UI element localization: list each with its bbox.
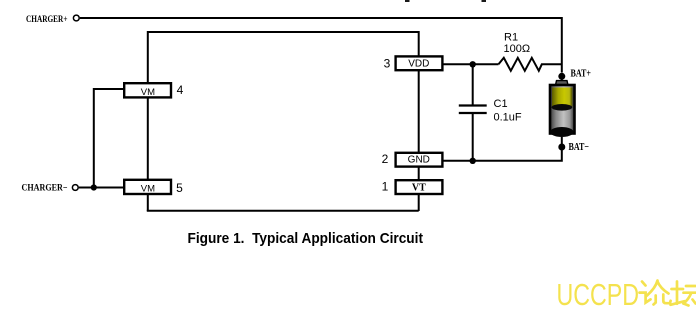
wire top rail down to VDD	[418, 31, 420, 56]
BAT+ node dot	[558, 73, 565, 80]
battery cell graphic	[550, 73, 575, 144]
svg-text:0.1uF: 0.1uF	[494, 111, 522, 123]
box GND pin2	[396, 153, 443, 167]
wire GND to VT	[418, 167, 420, 180]
svg-text:5: 5	[176, 181, 183, 195]
svg-text:GND: GND	[408, 155, 430, 166]
BAT- node dot	[558, 144, 565, 151]
wire top rail of loop	[148, 31, 419, 33]
svg-text:C1: C1	[494, 98, 508, 110]
svg-text:BAT+: BAT+	[571, 69, 592, 80]
wire junction up to VM pin4	[94, 89, 123, 188]
svg-text:VT: VT	[412, 182, 426, 193]
svg-text:3: 3	[384, 57, 391, 71]
junction dot GND/C1 node	[470, 158, 476, 164]
wire VDD to GND	[418, 71, 420, 152]
box VM pin4	[124, 83, 171, 98]
svg-text:CHARGER+: CHARGER+	[26, 15, 68, 25]
wire bottom rail up to VT	[418, 194, 420, 211]
wire VDD to resistor	[443, 63, 499, 65]
box VDD pin3	[396, 56, 443, 70]
wire CHARGER- to VM pin5	[79, 187, 123, 189]
watermark CJK tan	[671, 282, 696, 306]
box VT pin1	[396, 180, 443, 194]
junction dot VDD/C1 node	[470, 61, 476, 67]
watermark CJK lun	[640, 281, 671, 305]
svg-text:CHARGER−: CHARGER−	[22, 184, 68, 194]
svg-text:BAT−: BAT−	[569, 142, 590, 153]
junction dot on CHARGER- wire	[91, 184, 97, 190]
box VM pin5	[124, 180, 171, 195]
capacitor C1	[459, 66, 487, 161]
svg-text:VDD: VDD	[408, 59, 429, 70]
svg-text:Figure 1. Typical Application: Figure 1. Typical Application Circuit	[188, 230, 424, 247]
svg-text:VM: VM	[141, 87, 155, 98]
cropped text remnant right	[482, 0, 487, 2]
wire VM5 down to bottom rail	[147, 195, 149, 212]
cropped text remnant left	[405, 0, 410, 2]
wire GND to BAT-	[443, 146, 562, 161]
terminal CHARGER+	[73, 15, 79, 21]
svg-text:100Ω: 100Ω	[504, 43, 531, 55]
wire VM4 to VM5	[147, 98, 149, 179]
svg-text:UCCPD: UCCPD	[557, 277, 640, 309]
svg-text:VM: VM	[141, 183, 155, 194]
svg-text:R1: R1	[504, 32, 518, 44]
svg-text:1: 1	[382, 179, 389, 193]
wire CHARGER+ to BAT+ (top rail and right drop)	[80, 18, 562, 73]
resistor R1 zigzag	[499, 58, 562, 71]
wire left rail above VM4	[147, 31, 149, 82]
terminal CHARGER-	[72, 185, 78, 191]
wire bottom rail	[147, 210, 419, 212]
svg-text:2: 2	[382, 152, 389, 166]
svg-text:4: 4	[177, 83, 184, 97]
